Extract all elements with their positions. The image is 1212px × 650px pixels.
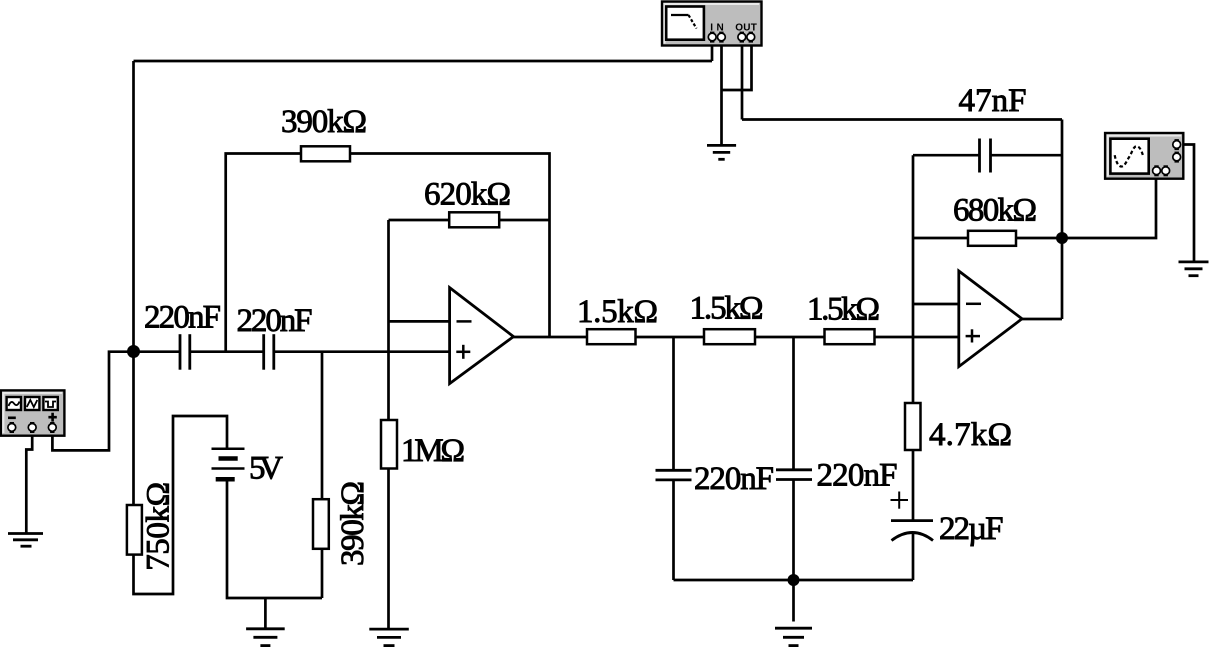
svg-text:390kΩ: 390kΩ xyxy=(335,481,371,566)
svg-text:1MΩ: 1MΩ xyxy=(401,433,465,469)
svg-text:220nF: 220nF xyxy=(237,303,313,339)
svg-text:1.5kΩ: 1.5kΩ xyxy=(577,294,658,330)
svg-text:47nF: 47nF xyxy=(959,83,1027,119)
svg-text:390kΩ: 390kΩ xyxy=(281,104,367,140)
svg-text:1.5kΩ: 1.5kΩ xyxy=(690,291,764,327)
svg-text:1.5kΩ: 1.5kΩ xyxy=(807,292,880,328)
svg-text:680kΩ: 680kΩ xyxy=(953,193,1037,229)
svg-text:620kΩ: 620kΩ xyxy=(424,177,511,213)
svg-text:22µF: 22µF xyxy=(939,511,1004,547)
svg-text:220nF: 220nF xyxy=(694,461,774,497)
svg-text:4.7kΩ: 4.7kΩ xyxy=(929,417,1012,453)
svg-text:OUT: OUT xyxy=(735,23,757,34)
svg-text:750kΩ: 750kΩ xyxy=(141,482,177,571)
svg-text:220nF: 220nF xyxy=(817,458,898,494)
svg-text:220nF: 220nF xyxy=(144,300,221,336)
svg-text:5V: 5V xyxy=(249,451,283,487)
